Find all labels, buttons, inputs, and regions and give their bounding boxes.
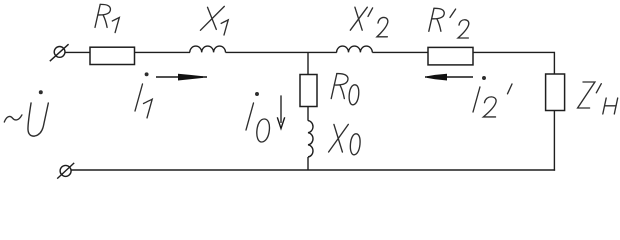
wire: bottom rail	[71, 169, 555, 171]
label Z'H	[578, 82, 618, 114]
wire: X'2 to R'2	[372, 51, 428, 53]
label I0	[246, 93, 269, 142]
current arrow I0	[277, 95, 284, 128]
label source voltage ~U	[4, 91, 48, 136]
resistor R1	[90, 47, 135, 64]
wire: Z'H to bottom rail	[553, 111, 555, 171]
resistor R'2	[428, 47, 473, 65]
wire: X0 to bottom rail	[307, 157, 309, 170]
wire: node A to X'2 coil	[308, 51, 337, 53]
label R0	[331, 74, 359, 105]
label X1	[200, 6, 228, 35]
wire: node A down to R0	[307, 52, 309, 74]
label R'2	[429, 8, 469, 38]
terminal: bottom-left input	[57, 163, 74, 179]
label X'2	[350, 7, 388, 37]
wire: input terminal to R1	[65, 51, 91, 53]
label I1	[135, 73, 152, 118]
resistor R0	[300, 75, 317, 107]
label R1	[95, 4, 119, 32]
wire: R'2 to top-right corner down to Z'H	[473, 52, 554, 74]
terminal: top-left input	[50, 44, 69, 61]
wire: X1 to node A	[226, 51, 309, 53]
inductor X1	[190, 46, 226, 52]
impedance Z'H (load)	[546, 74, 565, 111]
current arrow I1	[156, 74, 207, 81]
current arrow I2'	[425, 74, 473, 81]
label I2'	[473, 77, 512, 117]
inductor X'2	[337, 46, 373, 52]
label X0	[329, 124, 361, 154]
inductor X0	[308, 121, 313, 157]
wire: R0 to X0	[307, 107, 309, 121]
wire: R1 to X1	[135, 51, 191, 53]
